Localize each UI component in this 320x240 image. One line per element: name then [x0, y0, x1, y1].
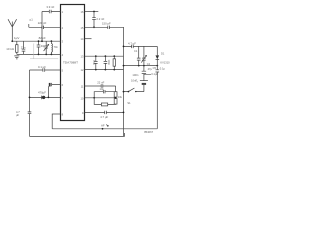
- svg-text:0.1µ: 0.1µ: [160, 66, 166, 70]
- op-amp U1 IC TDA7088T body: [61, 5, 85, 121]
- capacitor C17 4.7u (series W1): [128, 41, 136, 48]
- svg-text:10k: 10k: [118, 95, 123, 99]
- wire lower rail: [30, 133, 125, 136]
- wire upper rail: [52, 128, 157, 130]
- node pin numbers left: [62, 10, 64, 117]
- wire pin10: [85, 97, 116, 99]
- diode D1 varicap KV1310: [156, 46, 171, 65]
- node junction rail/switch: [123, 91, 125, 93]
- node junctions pin10: [93, 97, 116, 99]
- capacitor C21 100n (battery column): [132, 66, 146, 80]
- antenna: [8, 19, 17, 41]
- svg-text:0.1 µF: 0.1 µF: [38, 65, 46, 69]
- node junction rail/W1: [123, 46, 125, 48]
- capacitor C8 470uF electrolytic (series pin7): [38, 90, 46, 99]
- node tank junctions: [38, 40, 53, 55]
- svg-text:3.3n: 3.3n: [92, 60, 95, 65]
- capacitor C10 2.2nF: [92, 12, 104, 28]
- svg-text:470µF: 470µF: [38, 90, 46, 94]
- svg-text:22n: 22n: [21, 46, 26, 50]
- svg-text:10 kΩ: 10 kΩ: [6, 47, 14, 51]
- capacitor C13 100n: [104, 56, 110, 69]
- svg-text:4.7 µF: 4.7 µF: [100, 115, 108, 119]
- wire pin8 stub to rail: [52, 114, 60, 129]
- battery BT1 3V: [136, 79, 148, 91]
- svg-text:70n: 70n: [54, 45, 59, 49]
- node junctions W2: [123, 65, 159, 67]
- node antenna junction: [11, 40, 13, 42]
- wire pin9: [85, 111, 124, 113]
- inductor L1: [51, 41, 58, 54]
- svg-text:S1: S1: [127, 101, 131, 105]
- svg-text:100n: 100n: [107, 60, 110, 66]
- wire pin11 drop column: [115, 86, 117, 92]
- svg-text:22 nF: 22 nF: [97, 80, 104, 84]
- wire pin11: [85, 85, 116, 87]
- node junction pin15 wire: [93, 26, 95, 28]
- resistor R2: [113, 56, 115, 69]
- node junction wireA x42: [41, 40, 43, 42]
- node junction vertical/pin7: [29, 97, 31, 99]
- capacitor C2 tank 40p: [37, 41, 46, 54]
- trimmer capacitor C19: [141, 46, 146, 65]
- node AF junction on upper rail: [102, 128, 104, 130]
- wire W2: [124, 65, 158, 67]
- wire A (antenna to pin 3): [12, 40, 60, 42]
- capacitor C12 3.3n: [92, 56, 97, 69]
- wire W1 varicap feed: [124, 45, 158, 47]
- svg-text:100n: 100n: [132, 73, 138, 77]
- capacitor C18: [134, 46, 141, 65]
- wire pin7 audio: [30, 96, 61, 98]
- svg-text:47µ: 47µ: [148, 67, 153, 71]
- wire C (pin 5): [30, 69, 61, 71]
- svg-text:µF: µF: [16, 113, 20, 117]
- switch S1: [124, 88, 144, 105]
- capacitor C1 22n: [21, 41, 26, 54]
- capacitor C7 4.7uF (in vertical drop): [16, 110, 31, 117]
- wire pin1: [42, 12, 61, 42]
- svg-text:KV1310: KV1310: [160, 61, 170, 65]
- svg-text:1µV: 1µV: [14, 36, 19, 40]
- capacitor C20 (below diode): [153, 66, 166, 129]
- node junction pin6 drop: [48, 97, 50, 99]
- svg-text:150 pF: 150 pF: [102, 22, 111, 26]
- svg-text:D1: D1: [161, 52, 165, 56]
- resistor R5 lower loop: [94, 98, 115, 106]
- shield box (faint): [30, 44, 58, 59]
- wire pin16: [85, 11, 99, 13]
- wire pin2 with stub up: [29, 24, 61, 27]
- svg-text:C2: C2: [147, 62, 151, 66]
- capacitor C16 4.7uF (series pin9): [100, 111, 108, 119]
- wire pin13: [85, 55, 124, 57]
- node junction pin16: [93, 11, 95, 13]
- resistor R1 10k: [6, 41, 18, 54]
- svg-text:4.7 µF: 4.7 µF: [128, 41, 136, 45]
- capacitor C14 22n (series pin11): [97, 80, 104, 87]
- capacitor C4 220p (series pin2): [38, 21, 47, 29]
- svg-text:µ1: µ1: [30, 18, 34, 22]
- resistor R4: [114, 99, 117, 105]
- svg-text:10nF: 10nF: [131, 78, 137, 82]
- wire W3 stub: [144, 73, 151, 75]
- capacitor C6 0.1uF (series pin5): [38, 65, 46, 72]
- svg-text:2.2 nF: 2.2 nF: [96, 17, 104, 21]
- svg-text:3.9 nF: 3.9 nF: [46, 5, 54, 9]
- wire pin15 to rail: [85, 27, 124, 136]
- resistor R3: [114, 92, 122, 100]
- svg-text:C1: C1: [134, 49, 138, 53]
- capacitor C5 3.9n (series pin1): [46, 5, 54, 13]
- capacitor C15 10u upper loop: [94, 87, 114, 98]
- svg-text:AF: AF: [101, 124, 105, 128]
- svg-text:C5: C5: [153, 66, 157, 70]
- wire pin12: [85, 69, 124, 71]
- ground: [14, 56, 19, 59]
- svg-text:0.1µF: 0.1µF: [151, 72, 158, 76]
- capacitor C9 electrolytic (pin6 coupling): [48, 83, 60, 98]
- svg-text:854067: 854067: [144, 130, 153, 134]
- node pin numbers right: [81, 10, 84, 115]
- node junctions pin13/pin12 wires: [95, 55, 115, 70]
- svg-text:TDA7088T: TDA7088T: [63, 61, 78, 65]
- wire B (ground bus to pin 4): [17, 53, 61, 55]
- trimmer capacitor C3: [44, 41, 49, 54]
- node junction pin9/rail: [123, 112, 125, 114]
- capacitor C11 150pF (series pin15): [102, 22, 111, 29]
- wire vertical left drop: [29, 70, 31, 136]
- wire pin14 stub: [85, 38, 92, 40]
- svg-text:10µ: 10µ: [100, 87, 105, 91]
